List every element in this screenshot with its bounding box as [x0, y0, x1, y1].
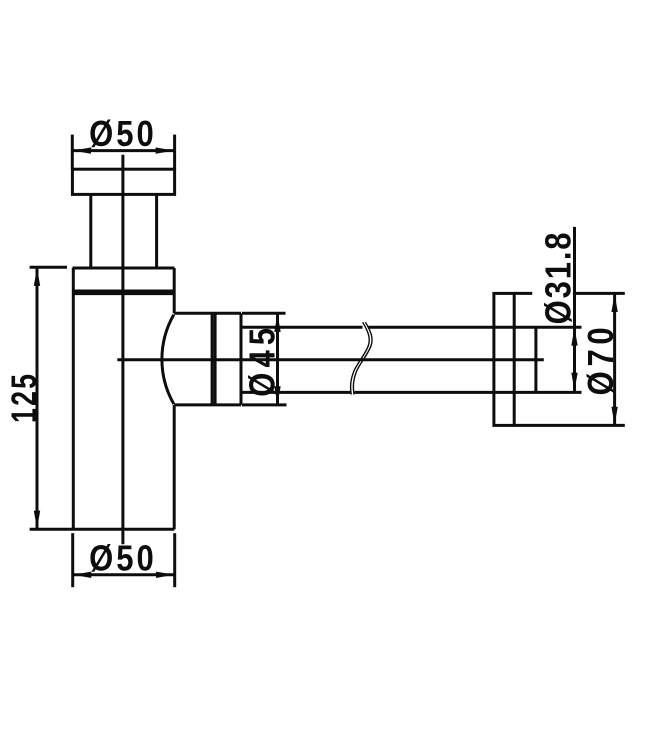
ring line 1: [211, 313, 214, 405]
dim 125: bottom arrow: [34, 511, 40, 529]
dim Ø50 bottom: left arrow: [73, 572, 91, 578]
dim Ø50 bottom: dimension line: [73, 573, 175, 576]
dim Ø70: top extension seg1: [514, 292, 532, 295]
dim Ø45: dimension line: [276, 313, 279, 405]
dim 125: dimension line: [36, 267, 39, 529]
dim 125: bottom extension: [30, 528, 73, 531]
dim 125: top arrow: [34, 268, 40, 286]
body thick weld band: [73, 289, 175, 295]
dim 125: top extension: [30, 266, 67, 269]
dim Ø70: bottom extension: [514, 424, 625, 427]
pipe bottom wire right of break: [355, 391, 582, 394]
pipe break squiggle right: [353, 322, 372, 394]
dim Ø70: top arrow: [611, 294, 617, 312]
dim Ø31.8: bottom arrow: [571, 373, 577, 391]
outlet boss top: [174, 312, 241, 315]
dim Ø70: top extension seg2: [573, 292, 625, 295]
svg-text:Ø70: Ø70: [581, 323, 622, 396]
body intersection arc: [162, 315, 174, 404]
dim Ø45: bottom extension: [242, 403, 287, 406]
top nut flange: [72, 169, 174, 194]
dim Ø45: top extension: [242, 312, 286, 315]
pipe top wire: [241, 326, 363, 329]
outlet boss bottom: [174, 403, 241, 406]
horizontal centerline: [117, 358, 544, 361]
pipe bottom wire: [241, 391, 351, 394]
dim Ø50 top: left extension: [71, 135, 74, 170]
pipe end edge: [534, 327, 537, 392]
svg-text:Ø50: Ø50: [89, 113, 157, 154]
neck tube left wire: [89, 194, 92, 268]
svg-text:125: 125: [4, 372, 44, 423]
dim Ø31.8: top arrow: [571, 328, 577, 346]
dim Ø50 bottom: right arrow: [156, 572, 174, 578]
dim Ø50 top: right arrow: [156, 147, 174, 153]
dim Ø31.8: dimension line extended up: [573, 227, 576, 391]
dim Ø45: bottom arrow: [274, 386, 280, 404]
pipe break squiggle left: [351, 322, 370, 394]
body bottom edge: [73, 528, 175, 531]
dim Ø50 top: dimension line: [72, 149, 174, 152]
wall flange: [494, 293, 514, 425]
dim Ø70: bottom arrow: [611, 407, 617, 425]
dim Ø70: dimension line: [613, 293, 616, 425]
svg-text:Ø31.8: Ø31.8: [538, 231, 579, 325]
vertical centerline: [121, 155, 124, 545]
body top edge: [73, 267, 175, 270]
body right edge lower: [173, 405, 176, 529]
neck tube right wire: [155, 194, 158, 268]
body left edge: [72, 268, 75, 529]
dim Ø45: top arrow: [274, 314, 280, 332]
ring line 2: [214, 313, 217, 405]
pipe top wire right of break: [369, 326, 582, 329]
dim Ø50 top: left arrow: [73, 147, 91, 153]
dim Ø50 bottom: left extension: [71, 533, 74, 587]
dim Ø50 top: right extension: [173, 135, 176, 170]
body right edge upper: [173, 268, 176, 313]
nut right edge: [240, 313, 243, 405]
svg-text:Ø50: Ø50: [89, 538, 157, 579]
svg-text:Ø45: Ø45: [242, 323, 283, 397]
dim Ø50 bottom: right extension: [173, 533, 176, 587]
